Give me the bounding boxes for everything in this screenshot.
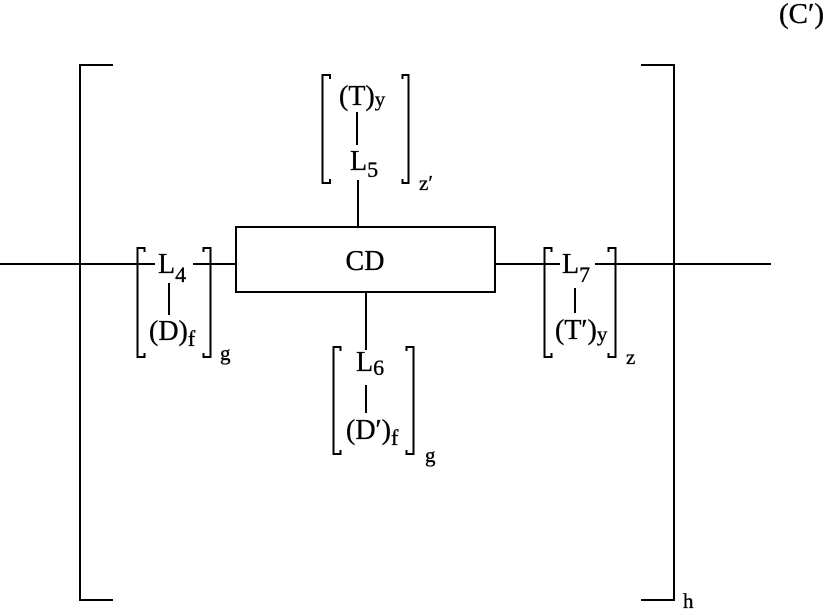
wire box-bottom to L6	[365, 292, 367, 350]
svg-text:(D′)f: (D′)f	[346, 415, 399, 450]
svg-text:L4: L4	[158, 249, 186, 287]
outer right bracket	[641, 65, 674, 600]
wire L5 to (T)y	[356, 112, 358, 145]
svg-text:(D)f: (D)f	[149, 316, 196, 351]
svg-text:h: h	[683, 589, 694, 610]
svg-text:CD: CD	[346, 246, 385, 277]
bottom bracket right	[407, 347, 414, 454]
top bracket right	[403, 75, 409, 183]
svg-text:L5: L5	[350, 146, 378, 182]
left bracket left	[138, 248, 145, 357]
svg-text:(T′)y: (T′)y	[555, 315, 608, 346]
wire L7 to (T')y	[574, 288, 576, 313]
bottom bracket left	[334, 347, 341, 454]
svg-text:(T)y: (T)y	[339, 81, 386, 112]
top bracket left	[323, 75, 331, 183]
wire L6 to (D')f	[365, 385, 367, 413]
CD box	[236, 227, 495, 292]
right bracket left	[545, 248, 552, 357]
left bracket right	[204, 248, 211, 357]
svg-text:z′: z′	[419, 171, 433, 195]
svg-text:L7: L7	[562, 249, 590, 287]
svg-text:z: z	[626, 345, 635, 369]
svg-text:g: g	[220, 341, 231, 365]
wire L4 to (D)f	[168, 283, 170, 315]
svg-text:L6: L6	[356, 347, 384, 380]
svg-text:(C′): (C′)	[779, 0, 824, 30]
right bracket right	[609, 248, 616, 357]
outer left bracket	[80, 65, 113, 600]
svg-text:g: g	[425, 443, 436, 467]
main horizontal bond line	[0, 263, 771, 265]
wire box-top to L5	[357, 180, 359, 227]
